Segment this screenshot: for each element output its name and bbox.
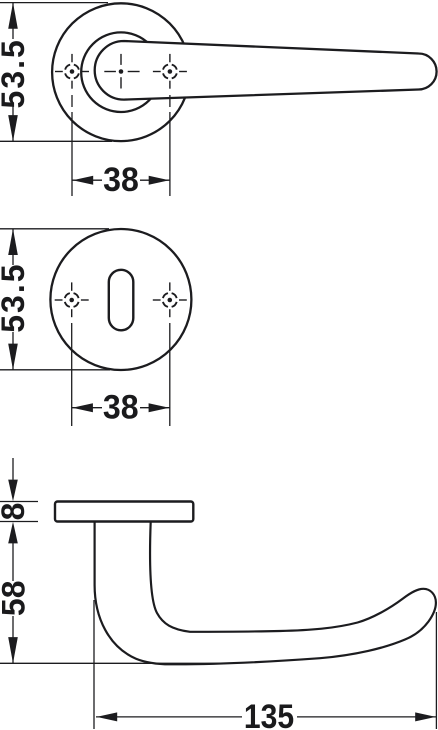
- svg-text:38: 38: [103, 161, 139, 199]
- svg-text:53.5: 53.5: [0, 38, 31, 108]
- svg-text:38: 38: [103, 389, 139, 427]
- svg-text:53.5: 53.5: [0, 262, 31, 332]
- svg-text:135: 135: [244, 697, 294, 730]
- svg-text:58: 58: [0, 581, 31, 617]
- svg-text:8: 8: [0, 503, 31, 521]
